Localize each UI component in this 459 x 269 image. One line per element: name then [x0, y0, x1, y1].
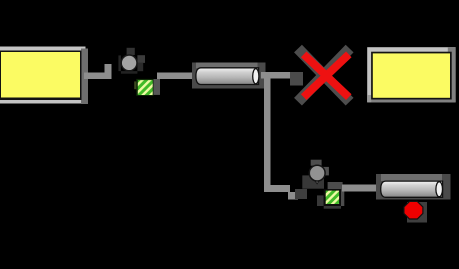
repeater R1 (cylinder)	[196, 68, 259, 85]
interface indicator L1 (gray circle)	[118, 48, 145, 74]
wire from N1 to link icons	[84, 64, 112, 79]
collision indicator shadow	[407, 202, 427, 223]
repeater R2 shadow plate	[376, 174, 451, 199]
right network box N2	[367, 47, 455, 102]
wire from link icons to repeater R1	[157, 72, 193, 79]
broken link marker X1 red cross	[304, 54, 349, 97]
interface indicator L2 (gray circle)	[302, 160, 329, 189]
collision indicator (red octagon)	[404, 201, 423, 219]
repeater R2 (cylinder)	[381, 181, 443, 197]
broken link marker X1 gray shadow	[298, 49, 350, 102]
link status square S2 (green striped)	[317, 182, 344, 209]
left network box N1	[0, 47, 88, 105]
repeater R1 shadow plate	[192, 63, 266, 89]
wire down from junction	[264, 72, 271, 192]
bottom wire to L2	[264, 185, 307, 199]
wire from R1 to broken link	[261, 72, 303, 86]
wire from S2 to repeater R2	[342, 184, 376, 191]
link status square S1 (green striped)	[134, 79, 160, 96]
